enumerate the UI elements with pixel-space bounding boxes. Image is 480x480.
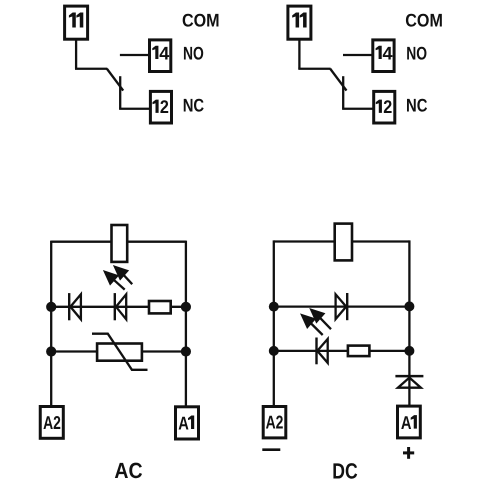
DC circuit: left vertical wire <box>273 240 275 405</box>
DC circuit: top wire <box>274 240 410 242</box>
AC circuit: right vertical wire <box>185 241 187 406</box>
svg-text:A2: A2 <box>43 412 61 433</box>
switch arm (left) <box>107 69 123 91</box>
LED (DC row 2, pointing left) <box>317 338 328 365</box>
wire horizontal step (right) <box>298 68 330 70</box>
terminal box A1 (DC) <box>398 406 421 438</box>
junction dot AC row2 right <box>181 346 191 356</box>
resistor (AC row 1) <box>149 301 171 313</box>
DC row 1 wire <box>274 305 410 307</box>
junction dot AC row2 left <box>46 346 56 356</box>
AC circuit: left vertical wire <box>50 241 52 406</box>
wire to terminal 12 (left) <box>119 108 150 110</box>
svg-text:NO: NO <box>406 42 427 63</box>
wire from 11 down (left) <box>75 40 77 69</box>
diode (AC row 1, pointing left) <box>69 293 81 320</box>
junction dot DC row2 right <box>404 346 414 356</box>
svg-text:4: 4 <box>383 42 394 63</box>
svg-text:NO: NO <box>183 42 204 63</box>
varistor diagonal stroke <box>92 334 148 370</box>
svg-text:A: A <box>178 412 189 433</box>
wire to terminal 14 (left) <box>120 54 149 56</box>
junction dot AC row1 right <box>181 302 191 312</box>
junction dot DC row1 left <box>269 302 279 312</box>
wire horizontal step (left) <box>75 68 107 70</box>
terminal box 12 (right contact set) <box>374 91 395 123</box>
plus polarity mark (under A1) <box>403 447 414 459</box>
diode (DC row 1, pointing right) <box>336 293 348 320</box>
terminal box 14 (right contact set) <box>373 40 394 72</box>
terminal box 11 (right contact set) <box>288 6 311 39</box>
junction dot AC row1 left <box>46 302 56 312</box>
junction dot DC row1 right <box>404 301 414 311</box>
relay coil (AC) <box>112 225 128 262</box>
DC circuit: right vertical wire <box>408 240 410 405</box>
terminal box 12 (left contact set) <box>150 91 171 123</box>
LED emission arrows (DC) <box>301 309 331 335</box>
svg-text:AC: AC <box>114 458 142 480</box>
AC circuit: top wire <box>51 241 186 243</box>
svg-text:COM: COM <box>182 10 220 31</box>
NC fixed contact stub (left) <box>119 76 121 109</box>
DC row 2 wire <box>274 350 410 352</box>
terminal box A2 (DC) <box>263 407 286 438</box>
wire to terminal 14 (right) <box>343 54 372 56</box>
svg-text:2: 2 <box>383 96 392 117</box>
minus polarity mark (under A2) <box>262 448 280 451</box>
LED emission arrows (AC) <box>104 266 132 289</box>
LED (AC row 1, pointing left) <box>115 293 126 320</box>
wire from 11 down (right) <box>298 40 300 69</box>
svg-text:COM: COM <box>405 10 443 31</box>
svg-text:2: 2 <box>160 96 169 117</box>
AC row 1 wire <box>51 306 186 308</box>
protection diode (DC, on right wire, pointing up) <box>395 376 423 388</box>
svg-text:A: A <box>401 412 412 433</box>
relay coil (DC) <box>335 224 352 261</box>
varistor body (AC row 2) <box>97 344 142 361</box>
svg-text:NC: NC <box>183 95 204 116</box>
svg-text:4: 4 <box>159 42 170 63</box>
terminal box A2 (AC) <box>40 407 63 439</box>
svg-text:A2: A2 <box>266 412 284 433</box>
resistor (DC row 2) <box>348 346 370 357</box>
NC fixed contact stub (right) <box>342 76 344 109</box>
AC row 2 wire <box>51 350 186 352</box>
svg-text:NC: NC <box>406 95 427 116</box>
svg-text:DC: DC <box>332 459 357 480</box>
wire to terminal 12 (right) <box>342 108 373 110</box>
terminal box 11 (left contact set) <box>65 6 88 39</box>
switch arm (right) <box>330 69 346 91</box>
terminal box 14 (left contact set) <box>150 40 171 72</box>
junction dot DC row2 left <box>269 346 279 356</box>
terminal box A1 (AC) <box>176 407 199 439</box>
